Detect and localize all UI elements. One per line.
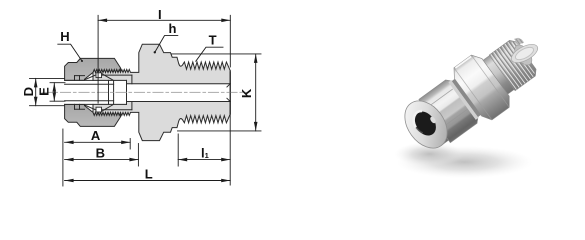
svg-text:E: E <box>37 87 52 96</box>
svg-text:A: A <box>91 128 101 143</box>
svg-text:l1: l1 <box>201 145 209 160</box>
svg-text:K: K <box>239 88 254 98</box>
svg-text:B: B <box>96 146 105 161</box>
svg-text:h: h <box>169 21 177 36</box>
svg-text:L: L <box>145 166 153 181</box>
svg-text:D: D <box>21 87 36 96</box>
svg-text:I: I <box>158 7 162 22</box>
svg-text:H: H <box>60 29 69 44</box>
svg-text:T: T <box>209 32 217 47</box>
